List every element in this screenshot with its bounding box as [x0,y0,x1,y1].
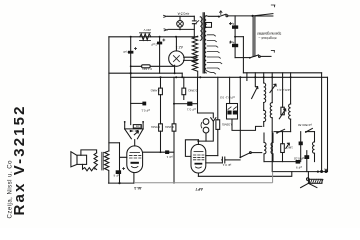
coil G x=314.5 [306,132,315,162]
svg-text:4µF: 4µF [229,22,234,26]
output tube AL1 [127,140,143,184]
switch blade to band coil [239,77,261,158]
IF coil E x=273 lower [271,133,273,162]
wire: left bus segment y=73.2 [109,72,182,74]
wire: vertical x=272.6 [271,132,273,172]
wire: y=144.4 link [109,142,120,144]
wire: top bus to right y=15.9 [228,15,253,17]
mains switch S1 [218,11,228,18]
svg-text:µF/0,1- 0,5: µF/0,1- 0,5 [220,95,235,99]
wire: ground bus y=171.6 [273,171,328,173]
gray chassis line y=182.6 [134,172,273,183]
oscillator coil C x=290.6 [289,73,291,132]
svg-text:µF 0,1: µF 0,1 [187,107,196,111]
wire: branch y=36.7 to x=243.4 [235,36,243,38]
grid coupling cap with trimmer arrow above AL1 [124,121,144,139]
junction dot bottom [118,182,120,184]
series capacitor on mains lead [192,21,196,24]
svg-text:µF 0,1: µF 0,1 [222,163,231,167]
switch blade S3 top right [253,14,273,16]
svg-text:µF 1: µF 1 [166,155,172,159]
svg-text:0,35MΩ: 0,35MΩ [221,122,232,126]
output transformer primary winding [105,151,109,183]
RF coil B x=272.2 [270,73,272,132]
wire: AF7 grid left link [185,140,198,157]
TA sockets [201,119,209,141]
column x=160.5 with resistors [150,77,162,152]
column x=174 with resistor [164,77,176,183]
IF coil D x=264 lower [264,133,266,162]
svg-text:AZ 1: AZ 1 [176,45,183,49]
svg-text:AL1: AL1 [133,186,141,191]
svg-text:Spannungswähler: Spannungswähler [256,32,281,36]
wire: AF7 anode right y=155.6 [206,155,218,157]
wire: AZ1 filament outputs right with arrows [184,57,194,60]
band switch row y=131.6 [274,123,312,134]
capacitor C2 on x=159.6 [151,37,165,73]
wire: vertical x=130.7 between buses [130,73,132,124]
capacitor C1 2uF electrolytic on x=130.7 [123,37,137,73]
resistor column x=217.8 [216,77,233,155]
cap 0,1uF stub on column x=130.7 [131,102,150,113]
svg-text:0,4MΩ: 0,4MΩ [150,89,160,93]
transformer bottom tap hook [206,71,215,74]
wire: AZ1 filament line y=66.3 [131,65,175,67]
trimmer T3 between coils [279,109,286,119]
voltage selector vertical pair [253,16,255,56]
coupling cap 0,1uF at AF7 right [206,157,240,167]
svg-text:0,5MΩ: 0,5MΩ [150,125,160,129]
svg-text:µF 0,1: µF 0,1 [141,108,150,112]
cap 8uF column x=119.5 [113,143,126,183]
svg-text:0,3MΩ: 0,3MΩ [188,89,198,93]
terminal hooks above dots [325,169,327,170]
tube AF7 [191,140,206,177]
svg-text:2 µF: 2 µF [123,50,129,54]
capacitor column x=235.1 with two electrolytics [229,16,238,58]
wire: screen feed column x=197.5 top [198,77,214,118]
antenna chevron [301,183,317,187]
wire: pot bottom to band switch row [232,119,262,130]
svg-text:eingebaut –: eingebaut – [258,36,276,40]
svg-text:0,05: 0,05 [135,124,141,128]
antenna terminal circle [307,178,310,181]
trimmer T2 [270,84,276,92]
series cap 0,1uF mid column [173,102,198,112]
capacitor 1uF link y=151.7 [143,150,174,159]
antenna coil A x=263.7 [264,73,266,127]
wire: transformer secondary top to switch [206,15,218,17]
wire: lower link y=161.6 [264,161,296,163]
wire: left border vertical [108,37,110,151]
junction dot [252,15,254,17]
svg-text:0,1 MΩ: 0,1 MΩ [141,67,152,71]
wire: vertical x=243.4 down to box line [242,37,244,73]
junction dot [130,72,132,74]
svg-text:4µF: 4µF [229,41,234,45]
antenna stem [307,172,309,184]
volume pot box with electrolytics [220,77,238,119]
tick junction x=246.9 [246,73,248,81]
small trimmer arrow near R7 [286,143,290,148]
wire: main bus y=77.3 [131,76,328,78]
svg-text:Rax V-32152: Rax V-32152 [11,107,28,216]
svg-text:µF/0,2-0,1: µF/0,2-0,1 [277,88,291,92]
loudspeaker [71,150,97,171]
terminal mark left of lamp wire [164,15,168,17]
wire: lamp bottom y=29.4 [168,28,194,30]
wire: box top line y=72.8 [243,72,321,74]
resistor 0,1 MOhm horizontal box [141,65,152,71]
svg-text:µF 8: µF 8 [113,174,119,178]
resistor: barretter on top bus [140,28,151,41]
mains transformer [192,13,211,78]
svg-text:0,1MΩ: 0,1MΩ [164,125,174,129]
switch S2 row y=57 [235,51,274,59]
grid cap fork [198,118,216,141]
speaker field coil zigzag vertical [94,153,97,169]
wire: vertical x=194.3 mains junction [193,16,195,37]
svg-text:220 V: 220 V [143,28,150,32]
output transformer core [102,152,103,170]
column x=183.8 with resistor [182,77,197,99]
rectifier tube AZ1 [169,37,184,79]
capacitor black near band switch [299,132,303,162]
hatched resistor box at antenna [309,179,323,183]
cap black x=306.8 [294,151,310,172]
svg-text:4×0,5 A: 4×0,5 A [177,11,189,15]
svg-text:µF/500-50: µF/500-50 [298,123,312,127]
junction dots ground bus [317,171,319,173]
wire: AL1 cathode bottom y=183.1 [109,182,134,184]
svg-text:AF7: AF7 [195,187,203,192]
wire: right border inner x=321.6 [321,73,323,172]
wire: AF7 cathode bottom long y=177.3 [198,172,291,177]
junction dots on top bus [130,36,132,38]
terminal mark left of lamp bottom wire [164,29,168,31]
trimmer cap T1 [252,73,258,99]
transformer taps with hooks [207,35,222,69]
resistor box R7 lower [281,132,293,162]
wire: right border outer x=327.5 [327,77,329,171]
resistor small box x=282.5 upper [281,107,284,115]
dial lamp [177,16,184,30]
svg-text:µF 9: µF 9 [296,166,302,170]
junction dots on main bus [159,76,161,78]
wire: lamp top feed y=16.3 [168,15,195,17]
wire: top power bus y=36.8 [109,36,198,38]
cap black at end y=161.6 [296,160,301,164]
svg-text:2 µF: 2 µF [151,42,157,46]
terminal hook top right [271,5,275,7]
